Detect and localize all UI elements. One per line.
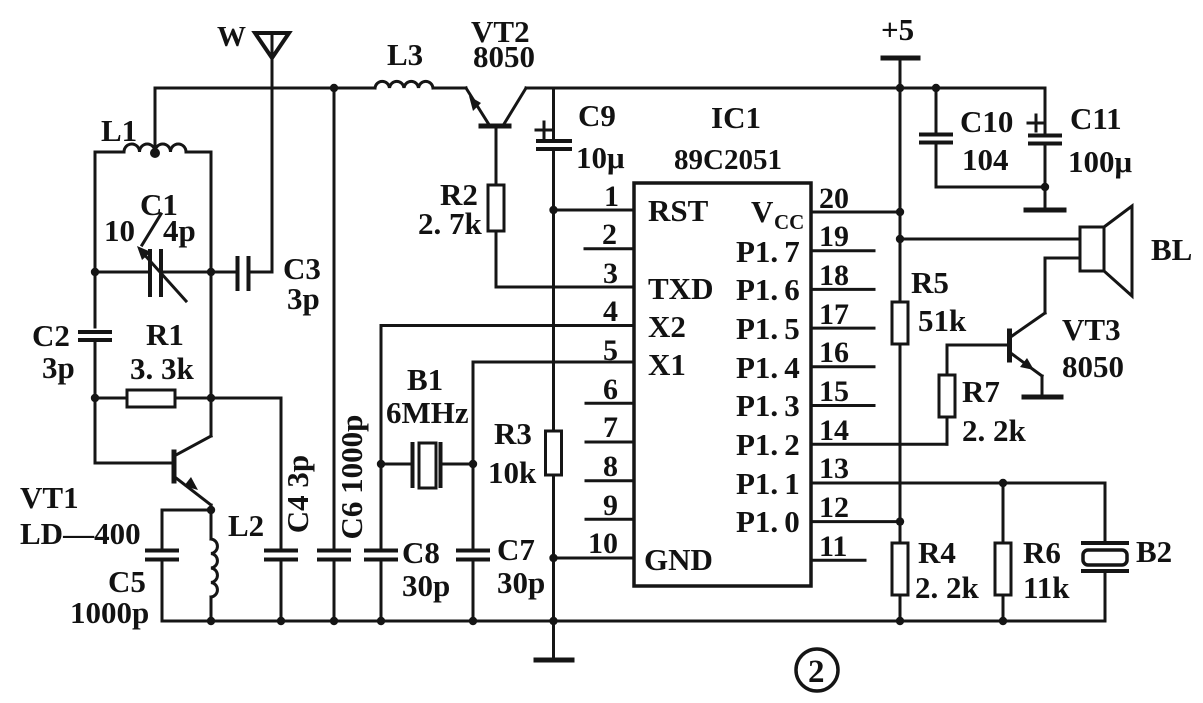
junction pin20 rail	[896, 208, 904, 216]
wire pin12 to rail	[811, 491, 900, 524]
wire VT1 emitter down	[210, 505, 213, 539]
junction rail R4	[896, 617, 904, 625]
svg-text:5: 5	[603, 334, 618, 367]
wire top rail right	[526, 87, 1045, 90]
junction top rail +5	[896, 84, 904, 92]
junction rail C7	[469, 617, 477, 625]
svg-text:104: 104	[962, 142, 1009, 177]
svg-text:C9: C9	[578, 98, 616, 133]
svg-text:C2: C2	[32, 318, 70, 353]
capacitor C2 3p	[32, 318, 110, 398]
junction L1 top	[150, 148, 160, 158]
svg-text:C4 3p: C4 3p	[280, 455, 315, 533]
capacitor C11 100u	[1028, 88, 1133, 208]
resistor R1 3.3k	[95, 317, 211, 407]
resistor R3 10k	[488, 416, 562, 558]
svg-text:VT1: VT1	[20, 480, 79, 515]
svg-text:3p: 3p	[287, 281, 320, 316]
power +5	[881, 12, 918, 88]
transistor VT2 8050	[466, 14, 535, 126]
svg-text:10μ: 10μ	[576, 140, 625, 175]
svg-text:12: 12	[819, 491, 849, 524]
svg-text:6: 6	[603, 373, 618, 406]
pin 17 stub	[811, 298, 874, 331]
pin 15 stub	[811, 375, 874, 408]
svg-text:8: 8	[603, 450, 618, 483]
svg-text:10: 10	[588, 527, 618, 560]
svg-text:1000p: 1000p	[70, 595, 149, 630]
svg-text:B1: B1	[407, 362, 443, 397]
svg-text:LD—400: LD—400	[20, 516, 141, 551]
svg-text:8050: 8050	[473, 39, 535, 74]
resistor R7 2.2k	[939, 374, 1027, 448]
svg-text:P1.3: P1.3	[736, 388, 800, 423]
svg-text:R1: R1	[146, 317, 184, 352]
capacitor C10 104	[921, 88, 1045, 187]
junction R1 right	[207, 394, 215, 402]
wire R3 to bottom rail	[552, 558, 555, 621]
wire pin5 X1	[473, 362, 634, 464]
capacitor C5 1000p	[70, 551, 177, 631]
svg-text:R4: R4	[918, 535, 956, 570]
svg-text:3. 3k: 3. 3k	[130, 351, 195, 386]
svg-text:100μ: 100μ	[1068, 144, 1133, 179]
resistor R4 2.2k	[892, 535, 980, 621]
junction rail C4	[277, 617, 285, 625]
wire +5 rail down	[899, 88, 902, 302]
capacitor C7 30p	[458, 464, 545, 621]
svg-text:19: 19	[819, 220, 849, 253]
svg-text:P1.1: P1.1	[736, 466, 800, 501]
svg-text:L1: L1	[101, 113, 137, 148]
svg-text:8050: 8050	[1062, 349, 1124, 384]
svg-text:6MHz: 6MHz	[386, 395, 469, 430]
svg-text:16: 16	[819, 336, 849, 369]
svg-text:BL: BL	[1151, 232, 1192, 267]
junction C11 bottom	[1041, 183, 1049, 191]
ground main	[536, 621, 572, 660]
svg-text:14: 14	[819, 414, 849, 447]
wire pin3 TXD	[496, 286, 634, 289]
svg-text:C11: C11	[1070, 101, 1122, 136]
transistor VT3 8050	[1010, 312, 1125, 395]
crystal B1 6MHz	[381, 362, 473, 488]
wire bottom rail	[162, 620, 1105, 623]
pin 16 stub	[811, 336, 874, 369]
svg-text:9: 9	[603, 489, 618, 522]
wire L1 drop	[154, 88, 157, 151]
wire L3 to VT2	[433, 87, 466, 90]
svg-text:P1.6: P1.6	[736, 272, 800, 307]
wire VT3 base	[947, 345, 1010, 375]
svg-text:TXD: TXD	[648, 271, 713, 306]
junction rail C6	[330, 617, 338, 625]
svg-text:C10: C10	[960, 104, 1013, 139]
junction pin10 node	[549, 554, 557, 562]
svg-text:P1.0: P1.0	[736, 504, 800, 539]
speaker BL	[1080, 206, 1192, 296]
pin 19 stub	[811, 220, 874, 253]
svg-text:P1.5: P1.5	[736, 311, 800, 346]
svg-text:11: 11	[819, 530, 847, 563]
svg-text:L3: L3	[387, 37, 423, 72]
junction C6 top	[330, 84, 338, 92]
svg-text:2: 2	[808, 654, 825, 690]
wire tank right vertical	[210, 152, 213, 436]
svg-text:P1.2: P1.2	[736, 427, 800, 462]
wire C5 branch top	[162, 510, 211, 548]
wire top rail left	[155, 87, 375, 90]
wire pin13 to R6 B2	[811, 452, 1105, 543]
svg-text:RST: RST	[648, 193, 709, 228]
junction R6 top	[999, 479, 1007, 487]
svg-text:2: 2	[602, 218, 617, 251]
svg-text:2. 2k: 2. 2k	[962, 413, 1027, 448]
svg-text:17: 17	[819, 298, 849, 331]
inductor L2	[211, 508, 264, 621]
resistor R5 51k	[892, 265, 967, 543]
antenna W	[217, 21, 289, 272]
svg-text:30p: 30p	[497, 565, 545, 600]
svg-text:15: 15	[819, 375, 849, 408]
junction pin12 rail	[896, 517, 904, 525]
wire pin20 Vcc	[811, 182, 900, 215]
svg-text:3: 3	[603, 257, 618, 290]
svg-text:R3: R3	[494, 416, 532, 451]
pin 11 stub	[811, 530, 865, 563]
svg-text:CC: CC	[774, 210, 804, 234]
junction rail R6	[999, 617, 1007, 625]
svg-text:R6: R6	[1023, 535, 1061, 570]
svg-text:VT3: VT3	[1062, 312, 1121, 347]
junction emitter C5 node	[207, 506, 215, 514]
junction C1 left	[91, 268, 99, 276]
svg-text:C6 1000p: C6 1000p	[334, 415, 369, 540]
junction rail C8	[377, 617, 385, 625]
junction B1 left	[377, 460, 385, 468]
svg-text:IC1: IC1	[711, 100, 761, 135]
svg-text:3p: 3p	[42, 350, 75, 385]
svg-text:GND: GND	[644, 542, 713, 577]
resistor R6 11k	[995, 483, 1070, 621]
ground VT3	[1024, 395, 1061, 400]
capacitor C9 10u	[536, 88, 625, 431]
svg-text:X1: X1	[648, 347, 686, 382]
svg-text:C5: C5	[108, 564, 146, 599]
ground C11	[1026, 208, 1064, 213]
capacitor C6 1000p	[319, 88, 369, 621]
svg-text:10k: 10k	[488, 455, 537, 490]
junction B1 right	[469, 460, 477, 468]
svg-text:X2: X2	[648, 309, 686, 344]
wire speaker bottom to VT3 collector	[1045, 258, 1080, 313]
svg-text:P1.4: P1.4	[736, 350, 800, 385]
svg-text:7: 7	[603, 411, 618, 444]
wire pin14 to R7	[811, 414, 947, 447]
svg-text:4p: 4p	[163, 213, 196, 248]
svg-text:W: W	[217, 21, 246, 53]
svg-text:13: 13	[819, 452, 849, 485]
wire VT1 base feed	[95, 398, 172, 463]
pin 7 stub	[586, 411, 634, 444]
buzzer B2	[1083, 534, 1172, 621]
capacitor C8 30p	[366, 464, 450, 621]
svg-text:30p: 30p	[402, 568, 450, 603]
svg-text:4: 4	[603, 295, 618, 328]
pin 2 stub	[585, 218, 634, 251]
capacitor C3 3p	[211, 251, 321, 316]
junction rail ground	[549, 617, 557, 625]
pin 18 stub	[811, 259, 874, 292]
svg-text:11k: 11k	[1023, 570, 1070, 605]
svg-text:B2: B2	[1136, 534, 1172, 569]
svg-text:2. 7k: 2. 7k	[418, 206, 483, 241]
wire R1 to C4 branch	[211, 398, 281, 548]
svg-text:R7: R7	[962, 374, 1000, 409]
svg-text:C8: C8	[402, 535, 440, 570]
junction rail L2	[207, 617, 215, 625]
wire pin10 GND	[554, 557, 635, 560]
svg-text:89C2051: 89C2051	[674, 144, 782, 176]
svg-text:+5: +5	[881, 12, 914, 47]
svg-text:P1.7: P1.7	[736, 234, 800, 269]
IC U1 89C2051 box	[634, 100, 811, 586]
svg-text:R5: R5	[911, 265, 949, 300]
junction pin1 node	[549, 206, 557, 214]
svg-text:1: 1	[604, 180, 619, 213]
inductor L3	[375, 37, 433, 88]
transistor VT1 LD-400	[20, 436, 211, 551]
wire tank left vertical	[94, 152, 97, 327]
capacitor C4 3p	[266, 455, 315, 621]
capacitor C1 10/4p variable	[95, 187, 211, 301]
wire pin4 X2	[381, 326, 634, 465]
svg-text:V: V	[751, 194, 774, 229]
svg-text:20: 20	[819, 182, 849, 215]
junction C10 top	[932, 84, 940, 92]
junction C1 right	[207, 268, 215, 276]
svg-text:18: 18	[819, 259, 849, 292]
svg-text:L2: L2	[228, 508, 264, 543]
svg-text:51k: 51k	[918, 303, 967, 338]
svg-text:2. 2k: 2. 2k	[915, 570, 980, 605]
pin 6 stub	[586, 373, 634, 406]
svg-text:C7: C7	[497, 532, 535, 567]
resistor R2 2.7k	[418, 126, 504, 287]
wire speaker top	[900, 238, 1080, 241]
junction R1 left	[91, 394, 99, 402]
svg-text:10: 10	[104, 213, 135, 248]
pin 8 stub	[586, 450, 634, 483]
pin 9 stub	[586, 489, 634, 522]
junction speaker feed	[896, 235, 904, 243]
inductor L1	[95, 113, 211, 152]
wire pin1 RST	[554, 209, 635, 212]
figure number 2	[796, 649, 838, 691]
